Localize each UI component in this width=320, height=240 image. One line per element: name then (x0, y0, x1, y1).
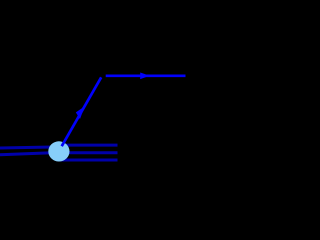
wire: outgoing horizontal line (scattered particle) (106, 74, 186, 77)
wire: outgoing remnant line 2 (right of blob) (58, 151, 118, 154)
wire: incoming hadron line 2 (left of blob) (0, 153, 52, 155)
wire: incoming hadron line 1 (left of blob) (0, 147, 52, 148)
node: interaction blob (vertex circle) (48, 141, 69, 161)
wire: outgoing remnant line 3 (right of blob) (58, 159, 118, 162)
wire: struck quark diagonal line (62, 77, 101, 146)
wire: outgoing remnant line 1 (right of blob) (58, 144, 118, 147)
arrowhead on horizontal line (140, 73, 150, 80)
arrowhead on diagonal quark line (76, 106, 85, 119)
